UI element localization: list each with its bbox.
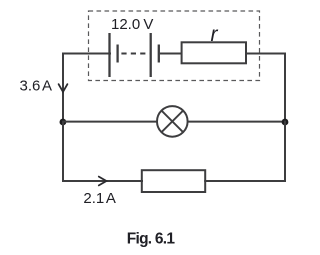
resistor r (internal resistance) — [182, 42, 246, 63]
battery B1 cell 1 short plate — [116, 45, 118, 63]
battery B1 cell 2 long plate — [150, 33, 152, 77]
node A (left junction dot) — [60, 119, 67, 126]
svg-text:12.0V: 12.0V — [111, 16, 153, 33]
svg-text:r: r — [211, 23, 219, 46]
current arrow 2.1 A (rightward arrowhead on bottom wire) — [99, 177, 107, 186]
wire middle-right (lamp to node B) — [187, 121, 285, 123]
wire battery to resistor r — [160, 53, 182, 55]
wire resistor r to top-right corner — [246, 53, 285, 55]
wire right vertical (top-right corner to node B) — [284, 54, 286, 122]
node B (right junction dot) — [282, 119, 289, 126]
lamp L1 (circle with cross) — [157, 106, 188, 137]
svg-text:3.6A: 3.6A — [20, 77, 52, 94]
dashed link wire between battery cells — [119, 53, 150, 55]
resistor R2 (bottom branch) — [142, 170, 205, 192]
wire bottom-right (resistor R2 to corner) — [205, 180, 285, 182]
wire middle-left (node A to lamp) — [63, 121, 158, 123]
wire bottom-left (corner to resistor R2) — [63, 180, 142, 182]
battery enclosure (dashed box) — [89, 11, 260, 81]
wire left vertical (top-left corner to node A) — [62, 54, 64, 122]
svg-text:2.1A: 2.1A — [83, 190, 115, 207]
battery B1 cell 2 short plate — [158, 45, 160, 63]
wire right vertical (node B to bottom-right corner) — [284, 122, 286, 181]
svg-text:Fig. 6.1: Fig. 6.1 — [127, 230, 176, 247]
current arrow 3.6 A (downward arrowhead on left wire) — [59, 84, 68, 92]
battery B1 cell 1 long plate — [108, 33, 110, 77]
wire left vertical (node A to bottom-left corner) — [62, 122, 64, 181]
wire top-left (node corner to battery plate) — [63, 53, 110, 55]
